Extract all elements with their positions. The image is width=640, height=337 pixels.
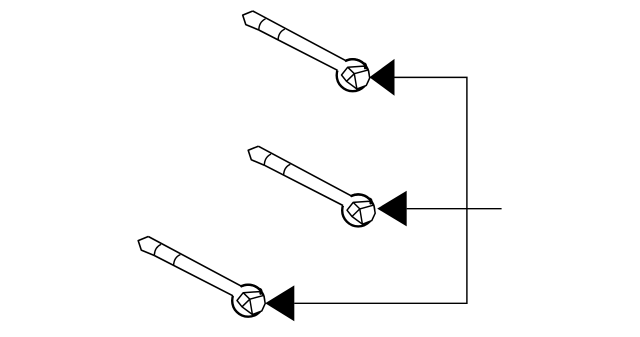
bolt B3 (flange hex bolt, isometric view) <box>138 237 265 317</box>
thread arc 1 <box>259 19 266 30</box>
washer rim hood arc <box>346 59 366 68</box>
shaft top edge <box>253 11 346 61</box>
shaft bottom edge <box>264 165 343 205</box>
thread arc 1 <box>264 154 271 165</box>
shaft bottom edge <box>154 256 233 296</box>
hex head internal edges <box>352 202 374 224</box>
shaft top edge <box>258 146 351 196</box>
hex head <box>342 66 370 89</box>
shaft body fill (covers rim at entry) <box>243 11 347 71</box>
shaft body fill (covers rim at entry) <box>138 237 242 297</box>
leader polyline arrow1 -> vertical -> arrow3 <box>294 77 467 303</box>
hex head <box>237 292 265 315</box>
washer rim hood arc <box>241 285 261 294</box>
bolt tip chamfer <box>138 237 154 256</box>
callout arrow 1 <box>369 59 394 96</box>
washer flange rim (circle) <box>337 59 369 91</box>
bolt tip chamfer <box>248 146 264 165</box>
bolt B2 (flange hex bolt, isometric view) <box>248 146 375 226</box>
callout arrow 3 <box>265 285 294 321</box>
washer rim hood arc <box>351 194 371 203</box>
bolt B1 (flange hex bolt, isometric view) <box>243 11 370 91</box>
thread arc 1 <box>154 244 161 255</box>
shaft bottom edge <box>259 30 338 70</box>
hex head internal edges <box>347 67 369 89</box>
leader line from arrow 2 <box>407 208 502 210</box>
hex head <box>347 201 375 224</box>
callout arrow 2 <box>377 191 407 227</box>
washer flange rim (circle) <box>232 285 264 317</box>
shaft top edge <box>148 237 241 287</box>
shaft body fill (covers rim at entry) <box>248 146 352 206</box>
washer flange rim (circle) <box>342 194 374 226</box>
thread arc 2 <box>284 164 291 175</box>
bolt tip chamfer <box>243 11 259 30</box>
thread arc 2 <box>174 255 181 266</box>
hex head internal edges <box>242 293 264 315</box>
thread arc 2 <box>278 29 285 40</box>
